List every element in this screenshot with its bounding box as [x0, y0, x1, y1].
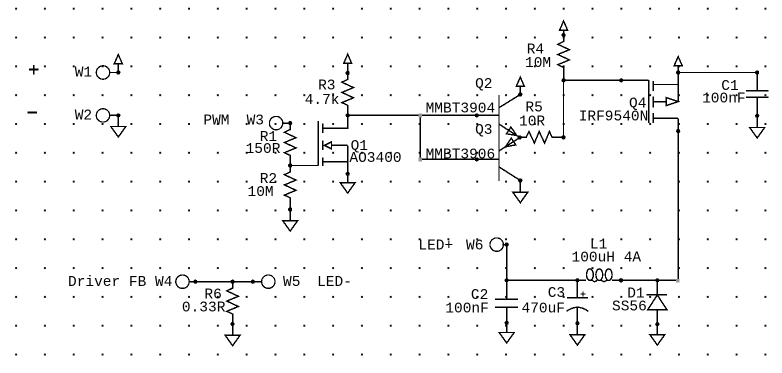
resistor R6 [227, 282, 239, 324]
svg-text:100uH 4A: 100uH 4A [572, 251, 642, 267]
node C1 bottom dot [755, 114, 759, 118]
node W2 junction dot [116, 113, 120, 117]
wire to Q2 base [420, 114, 499, 116]
ground symbol at R6 [225, 324, 240, 346]
power VCC symbol at R4 [560, 21, 568, 35]
node W3/R1 junction dot [288, 121, 292, 125]
capacitor C2 [495, 280, 518, 323]
svg-text:470uF: 470uF [522, 302, 566, 318]
node C3 bottom dot [575, 321, 579, 325]
svg-text:150R: 150R [246, 142, 281, 158]
svg-text:MMBT3906: MMBT3906 [426, 147, 496, 163]
svg-text:10M: 10M [248, 185, 274, 201]
node L1 right dot [619, 278, 623, 282]
svg-text:10M: 10M [525, 56, 551, 72]
wire W2 stub [110, 114, 119, 116]
svg-text:LED-: LED- [317, 275, 352, 291]
ground symbol at Q1 [340, 174, 355, 193]
svg-text:100nF: 100nF [445, 302, 489, 318]
wire W1 stub [110, 72, 119, 74]
label plus sign for W1 [29, 65, 39, 75]
capacitor C1 [746, 73, 769, 116]
node gray net square upper [418, 114, 422, 118]
node R4 bottom junction dot [562, 78, 566, 82]
node R3 bottom junction dot [346, 113, 350, 117]
node Q1 source dot [346, 172, 350, 176]
node R4 top dot [562, 33, 566, 37]
resistor R1 [284, 123, 296, 165]
svg-text:100nF: 100nF [702, 91, 746, 107]
terminal W3 (PWM) [269, 116, 282, 129]
terminal W5 (LED-) [262, 275, 275, 288]
node C1 top dot [755, 70, 759, 74]
ground symbol at Q3 [513, 181, 528, 203]
wire R4 junction to Q4 gate [564, 79, 649, 81]
node R1/R2/gate junction dot [288, 163, 292, 167]
power VCC symbol at Q4 [674, 57, 682, 73]
node gray net square lower [418, 158, 422, 162]
wire Q4 source to C1 [678, 72, 757, 74]
resistor R2 [284, 166, 296, 210]
node C2 bottom dot [505, 321, 509, 325]
diode D1 (SS56) [647, 280, 668, 324]
node Q3 base wire dot [475, 157, 479, 161]
wire R3 junction to bases rail [348, 114, 421, 116]
transistor Q3 (MMBT3906 PNP) [499, 138, 520, 181]
svg-text:LED+: LED+ [418, 238, 453, 254]
svg-text:W1: W1 [75, 66, 92, 82]
ground symbol at C2 [499, 323, 514, 343]
transistor Q2 (MMBT3904 NPN) [499, 95, 520, 181]
node Q2 base wire dot [475, 113, 479, 117]
node Q4 source dot [676, 70, 680, 74]
svg-text:C3: C3 [548, 286, 565, 302]
svg-text:0.33R: 0.33R [182, 300, 226, 316]
node R3 top dot [346, 71, 350, 75]
wire to Q1 gate [290, 165, 318, 167]
wire Q4 drain down to output node [677, 131, 679, 280]
node Q3 collector dot [518, 178, 522, 182]
resistor R3 [342, 73, 354, 115]
node R5 right dot [561, 135, 565, 139]
svg-text:W2: W2 [75, 108, 92, 124]
wire bus right segment [612, 279, 678, 281]
svg-text:Q3: Q3 [475, 123, 492, 139]
ground symbol at C3 [570, 323, 585, 345]
inductor L1 [587, 269, 613, 282]
label minus sign for W2 [28, 111, 37, 113]
terminal W2 [96, 109, 109, 122]
svg-text:4.7k: 4.7k [305, 93, 340, 109]
wire W4 to W5 [189, 281, 261, 283]
svg-text:W3: W3 [247, 114, 264, 130]
power VCC symbol at W1 [114, 55, 122, 73]
node D1 junction dot [655, 278, 659, 282]
node W6 stub dot [505, 243, 509, 247]
resistor R5 [520, 132, 564, 144]
node emitters junction dot [518, 135, 522, 139]
svg-text:W6: W6 [466, 238, 483, 254]
node D1 bottom dot [655, 322, 659, 326]
svg-text:Q2: Q2 [475, 77, 492, 93]
terminal W6 (LED+) [490, 238, 503, 251]
node Q4 drain dot [676, 129, 680, 133]
wire W3 stub [283, 122, 290, 124]
node W4 stub dot [193, 280, 197, 284]
node C3 junction dot [575, 278, 579, 282]
svg-text:IRF9540N: IRF9540N [579, 110, 649, 126]
transistor Q4 (IRF9540N P-MOSFET) [649, 73, 679, 132]
wire W6 stub [503, 244, 506, 246]
node bus/C2 junction dot [505, 278, 509, 282]
terminal W4 (Driver FB) [176, 275, 189, 288]
node Q2 collector dot [518, 92, 522, 96]
transistor Q1 (AO3400 N-MOSFET) [318, 115, 347, 173]
ground symbol at R2 [283, 210, 298, 232]
node R2 bottom dot [288, 207, 292, 211]
svg-text:R3: R3 [318, 78, 335, 94]
node R6 top junction dot [231, 280, 235, 284]
svg-text:MMBT3904: MMBT3904 [426, 101, 496, 117]
svg-text:Driver FB W4: Driver FB W4 [68, 275, 172, 291]
ground symbol at W2 [111, 115, 126, 137]
node W5 stub dot [251, 280, 255, 284]
resistor R4 [558, 35, 570, 80]
ground symbol at D1 [650, 324, 665, 345]
wire W6 down to bus [506, 245, 508, 281]
power VCC symbol at Q2 [516, 77, 524, 94]
node R6 bottom dot [231, 322, 235, 326]
svg-text:SS56: SS56 [612, 300, 647, 316]
wire to Q3 base [420, 158, 499, 160]
svg-text:W5: W5 [283, 275, 300, 291]
ground symbol at C1 [750, 116, 765, 138]
svg-text:AO3400: AO3400 [349, 151, 401, 167]
power VCC symbol at R3 [344, 54, 352, 73]
terminal W1 [96, 66, 109, 79]
svg-text:PWM: PWM [203, 114, 229, 130]
wire bus left segment [507, 279, 586, 281]
wire R5 to R4 junction [563, 80, 565, 137]
node Q4 gate wire dot [619, 78, 623, 82]
capacitor C3 (polarized) [567, 280, 589, 323]
svg-text:10R: 10R [519, 115, 545, 131]
wire bases rail vertical [419, 115, 421, 159]
node gray net square at output [676, 279, 680, 283]
node W1 junction dot [116, 70, 120, 74]
